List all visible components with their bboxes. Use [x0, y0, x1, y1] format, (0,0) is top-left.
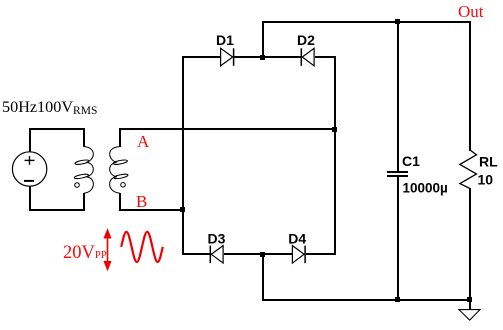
- diode D1: [221, 48, 234, 66]
- junction node A / bridge right: [332, 127, 337, 132]
- svg-text:RL: RL: [479, 154, 498, 170]
- wire bridge bottom right segment: [306, 253, 336, 255]
- ground: [459, 310, 480, 321]
- wire bridge right vertical: [334, 56, 336, 255]
- junction node B / bridge left: [180, 207, 185, 212]
- wire node A horizontal: [119, 128, 336, 130]
- wire C1 branch upper: [397, 21, 399, 171]
- wire node B horizontal: [119, 209, 183, 211]
- svg-text:B: B: [136, 192, 147, 211]
- wire RL branch lower: [469, 188, 471, 309]
- wire primary stub bottom: [83, 193, 85, 211]
- wire primary top: [29, 128, 85, 130]
- svg-text:Out: Out: [458, 2, 484, 21]
- diode D2: [301, 48, 314, 66]
- annotation sine wave: [121, 232, 163, 262]
- junction bottom rail / RL ground: [467, 297, 472, 302]
- wire bridge top left segment: [182, 56, 220, 58]
- wire top rail: [262, 21, 471, 23]
- junction D1 D2: [260, 55, 265, 60]
- wire secondary stub bottom: [119, 193, 121, 211]
- wire bridge left vertical: [182, 56, 184, 255]
- annotation double arrow: [104, 230, 111, 271]
- wire bridge bottom left segment: [182, 253, 210, 255]
- diode D4: [292, 246, 305, 264]
- wire D3D4 junction down to bottom rail: [262, 253, 264, 301]
- wire primary bottom: [29, 209, 85, 211]
- wire bottom rail: [262, 299, 471, 301]
- svg-text:10000µ: 10000µ: [403, 181, 448, 196]
- transformer primary winding: [74, 147, 93, 194]
- resistor RL zigzag: [460, 150, 477, 189]
- transformer secondary winding: [110, 147, 129, 194]
- junction D3 D4: [260, 252, 265, 257]
- wire D1D2 junction up to top rail: [262, 21, 264, 58]
- wire source bottom: [29, 186, 31, 211]
- svg-text:C1: C1: [402, 153, 420, 169]
- svg-text:D1: D1: [216, 32, 234, 48]
- wire C1 branch lower: [397, 177, 399, 301]
- svg-text:D2: D2: [297, 32, 315, 48]
- AC source V1: [12, 152, 46, 186]
- svg-text:D4: D4: [288, 230, 306, 246]
- diode D3: [210, 246, 223, 264]
- svg-text:A: A: [137, 132, 150, 151]
- svg-text:10: 10: [478, 171, 494, 187]
- wire bridge top middle segment: [234, 56, 301, 58]
- junction at top rail / C1: [395, 19, 400, 24]
- wire primary stub top: [83, 128, 85, 147]
- wire RL branch upper: [469, 21, 471, 151]
- wire bridge top right segment: [315, 56, 336, 58]
- capacitor C1 plates: [387, 171, 408, 177]
- svg-text:D3: D3: [208, 230, 226, 246]
- wire bridge bottom middle segment: [224, 253, 292, 255]
- wire secondary stub top: [119, 128, 121, 147]
- wire source top: [29, 128, 31, 152]
- junction bottom rail / C1: [395, 297, 400, 302]
